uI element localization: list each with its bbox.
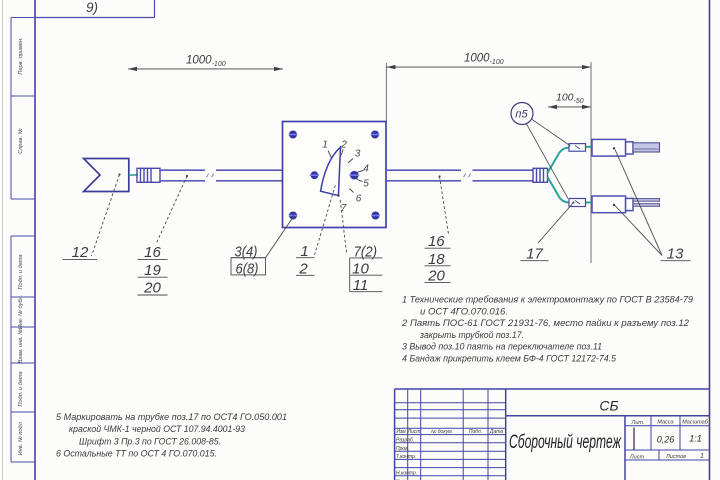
wire connector to sleeve xyxy=(129,174,138,176)
svg-text:Разраб.: Разраб. xyxy=(396,438,414,444)
svg-text:1: 1 xyxy=(322,140,328,151)
svg-text:п5: п5 xyxy=(515,109,528,121)
switch shaft mid-right xyxy=(349,171,359,180)
dimension 100 xyxy=(548,105,591,109)
svg-text:Лист: Лист xyxy=(629,455,645,461)
extension line right xyxy=(590,62,592,263)
svg-text:№ докум.: № докум. xyxy=(431,429,453,435)
plug lower leader dot xyxy=(613,204,615,206)
switch plate pos 11 xyxy=(283,122,387,228)
lit mark xyxy=(633,428,635,450)
svg-text:Т.контр.: Т.контр. xyxy=(396,454,416,460)
callout 12 leader xyxy=(92,173,121,256)
svg-text:0,26: 0,26 xyxy=(657,435,675,445)
svg-text:Сборочный чертеж: Сборочный чертеж xyxy=(509,432,622,453)
plug upper leader dot xyxy=(613,147,615,149)
svg-text:1 Технические требования к эле: 1 Технические требования к электромонтаж… xyxy=(402,295,693,305)
svg-text:Перв. примен.: Перв. примен. xyxy=(18,37,24,74)
title header small texts xyxy=(396,429,503,480)
screw mid-left xyxy=(310,171,319,179)
dimension 1000 right xyxy=(387,65,592,69)
position number 2 xyxy=(340,140,347,156)
svg-text:Подп. и дата: Подп. и дата xyxy=(18,254,24,289)
svg-text:Подп. и дата: Подп. и дата xyxy=(18,371,24,406)
switch pointer wedge xyxy=(321,147,341,196)
position balloon p5 xyxy=(511,103,571,199)
svg-text:Дата: Дата xyxy=(489,429,503,435)
svg-text:20: 20 xyxy=(143,280,161,297)
svg-text:Лит.: Лит. xyxy=(631,420,645,426)
svg-text:Подп.: Подп. xyxy=(469,429,482,435)
callout 13 label xyxy=(661,245,691,262)
left stamp labels xyxy=(18,37,24,455)
frame right border xyxy=(709,0,711,480)
callout 16/18/20 labels xyxy=(425,233,451,284)
svg-text:2 Паять ПОС-61 ГОСТ 21931-7: 2 Паять ПОС-61 ГОСТ 21931-76, место пайк… xyxy=(401,318,689,328)
svg-text:13: 13 xyxy=(667,245,684,262)
svg-text:4 Бандаж прикрепить клеем БФ-4: 4 Бандаж прикрепить клеем БФ-4 ГОСТ 1217… xyxy=(402,354,617,364)
position number 5 xyxy=(356,178,370,190)
svg-text:СБ: СБ xyxy=(599,398,618,414)
svg-text:3 Вывод поз.10 паять на перекл: 3 Вывод поз.10 паять на переключателе по… xyxy=(402,342,602,352)
svg-text:Лист: Лист xyxy=(407,429,421,435)
svg-text:1: 1 xyxy=(700,453,704,460)
wire split lower branch xyxy=(548,177,570,203)
svg-text:Масса: Масса xyxy=(657,420,673,426)
callout 7(2)/10/11 leader xyxy=(340,198,347,253)
svg-text:5: 5 xyxy=(363,179,369,190)
cable left segment xyxy=(160,170,283,181)
cable break dots xyxy=(207,174,214,178)
screw bottom-right xyxy=(371,212,380,220)
callout 3(4)/6(8) labels xyxy=(231,244,266,278)
wire upper to plug xyxy=(586,146,593,148)
svg-text:12: 12 xyxy=(72,244,89,261)
svg-text:5 Маркировать на трубке поз.17: 5 Маркировать на трубке поз.17 по ОСТ4 Г… xyxy=(56,412,287,422)
svg-text:Шрифт 3 Пр.3 по ГОСТ 26.008-85: Шрифт 3 Пр.3 по ГОСТ 26.008-85. xyxy=(79,437,221,447)
banana plug lower pos 13 xyxy=(592,196,633,213)
wire lower to plug xyxy=(586,202,593,204)
callout 3(4)/6(8) leader xyxy=(266,215,295,257)
callout 1/2 leader xyxy=(315,183,337,255)
callout 16/19/20 labels xyxy=(138,244,168,297)
position number 6 xyxy=(350,189,362,205)
svg-text:4: 4 xyxy=(363,164,369,175)
screw top-right xyxy=(371,131,380,139)
svg-text:Изм: Изм xyxy=(396,429,406,435)
position number 3 xyxy=(348,149,361,164)
svg-text:16: 16 xyxy=(428,233,445,250)
technical requirements 5-6 xyxy=(56,412,287,458)
title block grid xyxy=(395,389,710,480)
svg-text:Инв. № дубл.: Инв. № дубл. xyxy=(18,295,24,329)
svg-text:Листов: Листов xyxy=(665,454,686,460)
callout 17 leader xyxy=(538,201,575,243)
position number 4 xyxy=(356,164,369,175)
frame left border xyxy=(34,0,36,480)
svg-text:Н.контр.: Н.контр. xyxy=(396,471,417,477)
wedge dot xyxy=(337,194,339,196)
top stamp box 9) xyxy=(35,0,155,18)
technical requirements 1-4 xyxy=(401,295,693,364)
svg-text:1:1: 1:1 xyxy=(689,434,702,444)
screw top-left xyxy=(289,131,298,139)
position number 1 xyxy=(322,140,331,159)
svg-text:краской ЧМК-1 черной ОСТ 107.: краской ЧМК-1 черной ОСТ 107.94.4001-93 xyxy=(69,424,245,434)
sheet edge xyxy=(2,0,4,480)
callout 13 leaders xyxy=(614,150,662,256)
cable break dots right xyxy=(464,174,471,178)
svg-text:3: 3 xyxy=(355,149,361,160)
wire split upper branch xyxy=(548,147,570,173)
callout 16/19/20 leader xyxy=(156,175,188,244)
screw bottom-left xyxy=(289,212,298,220)
extension line at plate corner xyxy=(385,63,387,122)
svg-text:16: 16 xyxy=(144,244,161,261)
callout 17 label xyxy=(521,245,549,262)
svg-text:и ОСТ 4ГО.070.016.: и ОСТ 4ГО.070.016. xyxy=(420,306,508,316)
ferrule upper xyxy=(569,144,586,152)
cable right segment xyxy=(386,170,534,181)
heatshrink sleeve left xyxy=(137,168,160,182)
connector pos 12 xyxy=(84,159,129,192)
svg-text:6(8): 6(8) xyxy=(236,260,259,277)
svg-text:Пров.: Пров. xyxy=(396,446,409,452)
left margin stamp column xyxy=(11,18,35,463)
ferrule lower xyxy=(569,199,586,207)
callout 1/2 labels xyxy=(296,243,315,278)
banana plug upper pos 13 xyxy=(592,139,633,156)
callout 12 label xyxy=(63,244,98,261)
svg-text:6 Остальные ТТ по ОСТ 4 ГО.070: 6 Остальные ТТ по ОСТ 4 ГО.070.015. xyxy=(56,448,217,458)
svg-text:Масштаб: Масштаб xyxy=(682,420,709,426)
svg-text:18: 18 xyxy=(428,251,445,268)
title right small texts xyxy=(629,420,709,461)
callout 7(2)/10/11 labels xyxy=(350,243,383,294)
svg-text:Взам. инв. №: Взам. инв. № xyxy=(18,329,24,364)
svg-text:2: 2 xyxy=(340,140,347,151)
svg-text:Инв. № подл.: Инв. № подл. xyxy=(18,421,24,456)
svg-text:17: 17 xyxy=(526,245,543,262)
svg-text:19: 19 xyxy=(144,262,161,279)
svg-text:9): 9) xyxy=(86,0,98,15)
heatshrink sleeve right xyxy=(533,168,548,182)
dimension 1000 left xyxy=(128,67,283,71)
svg-text:закрыть трубкой поз.17.: закрыть трубкой поз.17. xyxy=(419,330,524,340)
callout 16/18/20 leader xyxy=(438,175,448,234)
svg-text:Справ. №: Справ. № xyxy=(18,128,24,153)
svg-text:20: 20 xyxy=(427,268,445,285)
svg-text:6: 6 xyxy=(356,194,362,205)
